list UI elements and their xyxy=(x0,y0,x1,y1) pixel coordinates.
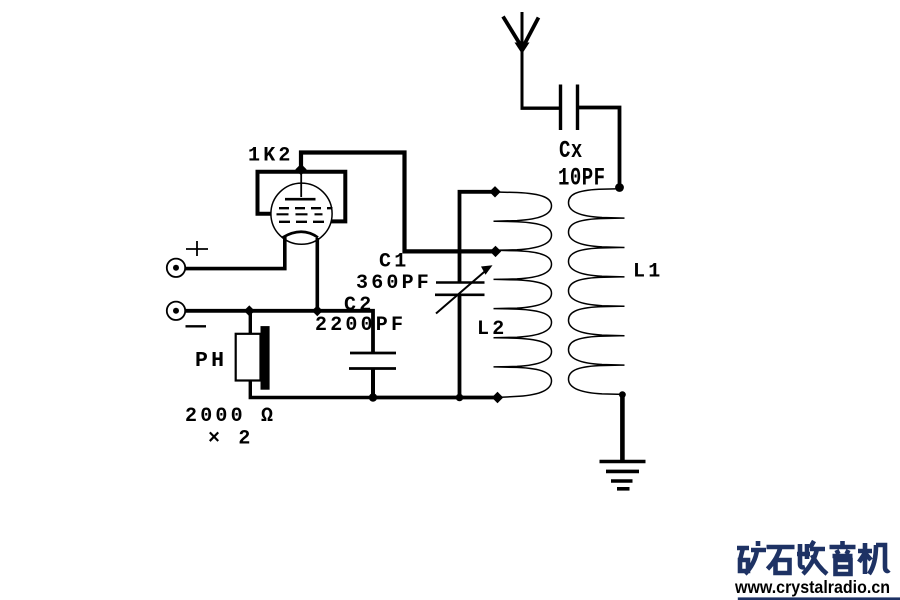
node L1 bottom xyxy=(619,391,626,398)
char shi xyxy=(767,547,795,573)
antenna xyxy=(503,12,539,109)
svg-text:Cx: Cx xyxy=(559,138,583,165)
svg-text:2000 Ω: 2000 Ω xyxy=(185,405,276,428)
char yin xyxy=(830,541,856,574)
headphone PH bar xyxy=(261,326,270,390)
capacitor C2 xyxy=(349,353,396,398)
headphone PH lead top xyxy=(249,311,252,335)
wire L2 top to C1 rail xyxy=(460,192,496,282)
svg-text:C1: C1 xyxy=(379,251,409,274)
svg-text:× 2: × 2 xyxy=(208,428,254,451)
node tube leg junction xyxy=(312,305,323,316)
svg-text:L1: L1 xyxy=(633,261,663,284)
wire L1 to ground xyxy=(620,394,625,461)
inductor L1 xyxy=(569,189,625,395)
svg-text:360PF: 360PF xyxy=(356,272,432,295)
wire C1 bottom lead xyxy=(458,295,462,398)
node L2 tap xyxy=(490,246,501,257)
terminal + xyxy=(167,259,185,277)
tube plate xyxy=(285,198,316,201)
node C1 bottom xyxy=(456,394,464,402)
capacitor Cx xyxy=(561,85,578,131)
node tube top xyxy=(295,164,306,175)
char ji xyxy=(858,543,889,574)
wire antenna to Cx xyxy=(521,106,561,109)
svg-text:2200PF: 2200PF xyxy=(315,314,406,337)
wire minus bus xyxy=(186,311,374,353)
label minus xyxy=(186,325,207,327)
inductor L2 xyxy=(494,192,552,397)
svg-text:www.crystalradio.cn: www.crystalradio.cn xyxy=(734,577,890,597)
terminal minus xyxy=(167,302,185,320)
wire plate bus xyxy=(301,153,496,252)
headphone PH lead bottom xyxy=(250,381,373,398)
tube grid cap lead xyxy=(300,172,302,197)
tube V1 envelope xyxy=(271,183,332,244)
wire Cx to L1 top xyxy=(578,108,620,188)
svg-text:10PF: 10PF xyxy=(558,164,606,192)
char kuang xyxy=(737,541,766,574)
node PH branch xyxy=(244,305,255,316)
ground xyxy=(600,462,646,489)
label + xyxy=(186,241,208,256)
wire filament left to + terminal xyxy=(186,237,285,269)
wire bottom bus xyxy=(373,396,498,400)
tube filament xyxy=(283,232,319,238)
watermark bottom bar xyxy=(738,597,900,600)
node L2 bottom xyxy=(492,392,503,403)
node L2 top xyxy=(489,186,500,197)
watermark logo text xyxy=(737,541,889,574)
headphone PH body xyxy=(236,334,261,381)
char shou xyxy=(797,541,827,574)
node L1 top xyxy=(615,183,624,192)
svg-text:L2: L2 xyxy=(477,318,507,341)
tube grid dashes row 3 xyxy=(279,221,328,223)
svg-text:PH: PH xyxy=(195,349,227,373)
node C2 bottom xyxy=(369,393,377,401)
svg-text:1K2: 1K2 xyxy=(248,145,294,168)
tube V1 grid loop rectangle xyxy=(258,172,346,222)
tube grid dashes row 2 xyxy=(277,213,323,215)
wire filament right to minus bus xyxy=(315,238,319,311)
tube grid dashes row 1 xyxy=(279,207,333,209)
variable capacitor C1 xyxy=(435,265,493,313)
